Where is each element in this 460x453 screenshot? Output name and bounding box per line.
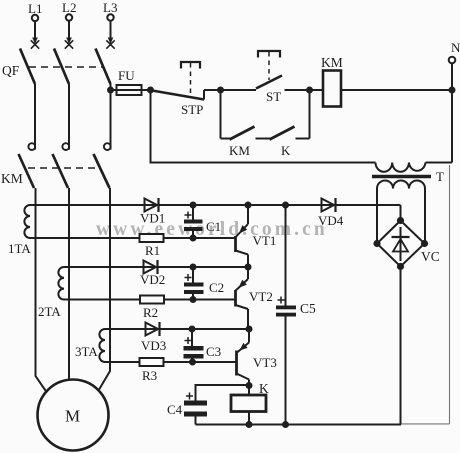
wire secondary right (424, 189, 426, 244)
node C5 bottom (282, 421, 289, 428)
relay coil K (231, 381, 269, 425)
svg-text:KM: KM (1, 171, 23, 186)
node VT3 emitter (246, 382, 253, 389)
wire between contacts (256, 138, 272, 140)
node N line (449, 87, 456, 94)
pushbutton STP (NC stop) (152, 62, 204, 117)
contactor KM main (1, 143, 111, 188)
transistor VT3 (237, 329, 277, 386)
wire KM coil to N (341, 89, 452, 91)
wire phase2 QF to KM (68, 84, 70, 150)
svg-text:VC: VC (421, 249, 440, 264)
svg-text:R2: R2 (143, 305, 158, 320)
svg-text:C1: C1 (206, 219, 221, 234)
node K bottom (246, 421, 253, 428)
svg-text:M: M (65, 407, 80, 426)
node C3 top (189, 326, 196, 333)
node branch KM-K (217, 87, 224, 94)
svg-text:T: T (436, 169, 444, 184)
wire ST to KM coil (285, 89, 324, 91)
wire control to transformer primary (151, 90, 376, 163)
diode VD1 (140, 198, 165, 226)
watermark (96, 219, 328, 240)
wire ch2 top (64, 266, 248, 268)
wire phase2 to motor (68, 188, 70, 381)
node C2 top (190, 264, 197, 271)
diode VD4 (318, 198, 344, 228)
node VT1 emitter / VT2 collector (245, 264, 252, 271)
capacitor C2 (184, 267, 224, 300)
wire secondary left (376, 189, 378, 244)
svg-text:KM: KM (229, 143, 250, 158)
current transformer 2TA (38, 267, 64, 319)
svg-text:VD4: VD4 (318, 213, 344, 228)
transistor VT1 (236, 205, 277, 267)
node C3 bottom (189, 359, 196, 366)
terminal L1 (28, 1, 42, 49)
terminal L2 (62, 0, 76, 49)
wire phase3 QF to KM (110, 84, 112, 150)
breaker QF (2, 49, 111, 85)
wire ch3 top (105, 328, 249, 330)
node bridge bottom (397, 263, 404, 270)
wire STP to ST (204, 89, 256, 91)
diode VD3 (141, 322, 166, 353)
svg-text:N: N (451, 40, 460, 55)
wire phase1 to motor (36, 188, 47, 392)
resistor R3 (140, 358, 164, 383)
capacitor C4 (167, 385, 249, 425)
terminal L3 (103, 0, 117, 49)
node VT1 collector (245, 202, 252, 209)
rectifier bridge VC (377, 221, 440, 267)
svg-text:VT2: VT2 (249, 289, 273, 304)
wire ch1 base (30, 237, 236, 239)
svg-text:STP: STP (181, 102, 203, 117)
svg-text:C5: C5 (300, 301, 316, 316)
node C2 bottom (190, 296, 197, 303)
svg-text:L2: L2 (62, 0, 76, 15)
resistor R2 (140, 296, 164, 321)
transistor VT2 (236, 267, 273, 329)
pushbutton ST (NO start) (256, 51, 282, 104)
svg-text:VT3: VT3 (253, 355, 277, 370)
wire bus ch1 top (30, 204, 401, 206)
node ST right (306, 87, 313, 94)
capacitor C3 (184, 329, 222, 362)
node STP left (147, 87, 154, 94)
svg-text:L1: L1 (28, 1, 42, 16)
terminal N (449, 40, 460, 163)
coil KM (321, 55, 343, 107)
svg-text:ST: ST (266, 89, 281, 104)
svg-text:FU: FU (118, 68, 135, 83)
transformer T (372, 163, 452, 189)
contact KM auxiliary (229, 127, 255, 159)
svg-text:R3: R3 (142, 368, 157, 383)
wire ch3 base (105, 361, 237, 363)
svg-text:VD3: VD3 (141, 338, 166, 353)
wire bottom rail (196, 424, 402, 426)
branch wire to aux contacts (220, 90, 222, 139)
svg-text:C4: C4 (167, 402, 183, 417)
wire phase1 QF to KM (34, 84, 36, 150)
capacitor C1 (184, 205, 221, 238)
node VT2 emitter / VT3 collector (246, 326, 253, 333)
wire bus to bridge (400, 205, 402, 221)
svg-text:C2: C2 (209, 280, 224, 295)
svg-text:VT1: VT1 (253, 233, 277, 248)
contact K relay (270, 127, 295, 159)
diode VD2 (140, 260, 165, 287)
wire ch2 base (64, 299, 236, 301)
capacitor C5 (276, 205, 316, 425)
node C1 top (190, 202, 197, 209)
node bridge left (373, 240, 380, 247)
fuse FU (111, 68, 153, 95)
svg-text:1TA: 1TA (8, 241, 31, 256)
wire faint right extension (401, 165, 450, 424)
svg-text:R1: R1 (145, 243, 160, 258)
node C1 bottom (190, 235, 197, 242)
current transformer 1TA (8, 205, 31, 256)
current transformer 3TA (75, 329, 105, 362)
node FU tap (107, 87, 114, 94)
node C5 top (282, 202, 289, 209)
motor M (38, 380, 109, 451)
svg-text:K: K (281, 143, 291, 158)
svg-text:2TA: 2TA (38, 304, 61, 319)
svg-text:KM: KM (321, 55, 343, 70)
resistor R1 (140, 234, 164, 258)
svg-text:L3: L3 (103, 0, 117, 15)
wire bridge bottom to rail (400, 267, 402, 425)
svg-text:C3: C3 (206, 344, 221, 359)
svg-text:QF: QF (2, 63, 20, 78)
node bridge top (397, 217, 404, 224)
wire phase3 to motor (99, 188, 111, 391)
node bridge right (421, 240, 428, 247)
wire K contact to node (296, 138, 310, 140)
svg-text:3TA: 3TA (75, 344, 98, 359)
